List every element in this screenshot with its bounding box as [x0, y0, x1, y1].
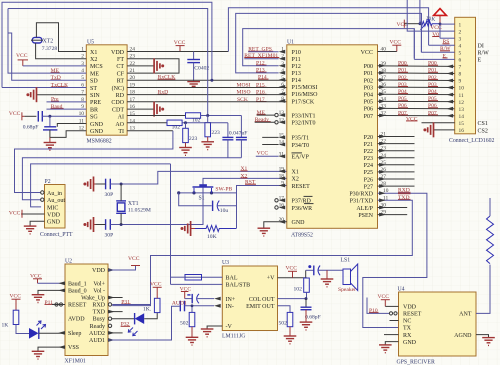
svg-text:RESET: RESET [403, 312, 422, 318]
svg-text:11.0529M: 11.0529M [128, 208, 151, 214]
ground at U2 VSS [38, 347, 65, 351]
svg-text:14: 14 [130, 118, 136, 124]
svg-text:MSM6882: MSM6882 [87, 139, 112, 145]
svg-text:AVDD: AVDD [68, 317, 85, 323]
svg-text:CS2: CS2 [478, 128, 488, 134]
U2 right pin wedges [108, 268, 115, 272]
svg-text:S1: S1 [199, 195, 205, 201]
resistor 502 on EMIT OUT [278, 306, 291, 313]
svg-text:P26: P26 [364, 177, 373, 183]
svg-text:NC: NC [403, 319, 411, 325]
series cap on IN- (AUD1) [179, 301, 181, 312]
wire crystal bottom to pin2 X2 [36, 43, 87, 59]
wire pin2 from top edge [407, 0, 455, 31]
svg-text:30P: 30P [105, 192, 114, 198]
capacitor 68pF below COL OUT [305, 299, 307, 308]
svg-text:Vol+: Vol+ [93, 281, 105, 287]
svg-text:4: 4 [459, 43, 462, 49]
wire pin12 GND to cap bottom [50, 130, 86, 138]
svg-text:P11: P11 [292, 57, 301, 63]
ground below 223 [179, 147, 192, 149]
svg-text:EA/VP: EA/VP [292, 155, 310, 161]
wire RD pin18 row to U1 P16/MISO [127, 94, 287, 96]
svg-text:X2: X2 [241, 173, 248, 179]
wire AO pin14 row [127, 122, 167, 124]
IC U3 LM111JG body [222, 266, 277, 331]
switch S1 symbol SW-PB [193, 188, 195, 193]
svg-text:GND: GND [90, 129, 104, 135]
resistor (BAL loop) [185, 276, 222, 278]
ground below 223 [201, 141, 214, 143]
wire BAL/STB row [171, 283, 223, 285]
VCC power arrow (red) [439, 15, 441, 22]
wire cap to pin10 SG with junction [42, 115, 86, 117]
svg-text:MCS: MCS [90, 64, 103, 70]
svg-text:VCC: VCC [9, 111, 21, 117]
P00-P07 bus wires to LCD [378, 66, 455, 116]
ground below 68pF [300, 321, 313, 323]
svg-text:102: 102 [172, 125, 181, 131]
svg-text:CDO: CDO [111, 100, 124, 106]
inverted-pin circles P33 P32 P37 P36 [275, 113, 278, 116]
switch S1 wire row [179, 192, 237, 194]
resistor 10K + ground (reset pulldown) [181, 221, 191, 236]
svg-text:X2: X2 [292, 177, 299, 183]
svg-text:VDD: VDD [403, 305, 417, 311]
svg-text:C0402: C0402 [194, 65, 209, 71]
wire FT pin23 to CF pin21 loop [127, 59, 179, 73]
svg-text:P00: P00 [364, 64, 373, 70]
svg-text:U5: U5 [87, 40, 94, 46]
svg-text:VCC: VCC [128, 256, 140, 262]
svg-text:Wake_Up: Wake_Up [81, 296, 105, 302]
svg-text:Connect_LCD1602: Connect_LCD1602 [449, 138, 495, 144]
wire loop3 to P2 MIC [31, 164, 171, 207]
svg-text:VCC: VCC [150, 282, 162, 288]
svg-text:P21: P21 [364, 142, 373, 148]
antenna (zigzag wire) [489, 198, 491, 216]
U1 right pin numbers [381, 47, 389, 216]
svg-text:P35/T1: P35/T1 [292, 136, 310, 142]
svg-text:U4: U4 [398, 287, 405, 293]
svg-text:CF: CF [117, 71, 125, 77]
wire TI pin13 row [127, 130, 173, 132]
svg-text:8: 8 [459, 72, 462, 78]
crystal XT1 [117, 203, 125, 211]
svg-text:502: 502 [279, 321, 288, 327]
svg-text:PRE: PRE [90, 100, 101, 106]
svg-text:VCC: VCC [174, 40, 186, 46]
U1 left pin wedges [279, 50, 286, 224]
ground at P2 GND [30, 221, 44, 226]
resistor 223 (below AI junction) [207, 116, 209, 123]
wire loop2 rail to P2 Au_out [22, 158, 241, 200]
svg-text:GND: GND [47, 220, 61, 226]
svg-text:ANT: ANT [459, 312, 472, 318]
svg-text:2: 2 [459, 29, 462, 35]
svg-text:Vol -: Vol - [93, 288, 105, 294]
IC U5 MSM6882 body [86, 45, 127, 135]
U2 VDD wire to VCC [108, 266, 136, 271]
svg-text:6: 6 [459, 58, 462, 64]
ground below 502 [186, 336, 199, 338]
svg-text:PSEN: PSEN [358, 213, 373, 219]
ground below 502 #2 [284, 335, 297, 337]
series cap + to speaker [306, 269, 314, 271]
svg-text:VDD: VDD [47, 213, 61, 219]
svg-text:RST: RST [245, 180, 256, 186]
svg-text:TI: TI [118, 129, 124, 135]
ground left of bottom 30P cap (sideways) [83, 217, 93, 232]
side labels DI R/W E CS1 CS2 [478, 44, 490, 135]
svg-text:ME: ME [90, 71, 99, 77]
svg-text:VCC: VCC [286, 265, 298, 271]
svg-text:P13: P13 [292, 71, 301, 77]
wire VCC to pin3 MCS [23, 65, 87, 67]
ground at pin7 SIN (sideways) [37, 94, 87, 96]
capacitor 30P top [105, 179, 107, 190]
svg-text:IN-: IN- [226, 304, 234, 310]
ALE PSEN stubs [378, 207, 408, 209]
svg-text:Baud_1: Baud_1 [68, 281, 87, 287]
svg-text:P16/MISO: P16/MISO [292, 92, 319, 98]
IC U4 GPS_RECIVER body [399, 292, 477, 356]
svg-text:P32/INT0: P32/INT0 [292, 121, 316, 127]
svg-text:X1: X1 [292, 170, 299, 176]
svg-text:P36/WR: P36/WR [292, 206, 313, 212]
svg-text:U3: U3 [222, 260, 229, 266]
svg-text:P14: P14 [292, 78, 301, 84]
svg-text:9: 9 [459, 79, 462, 85]
svg-text:P17/SCK: P17/SCK [292, 99, 315, 105]
wire loop1 TI to P2 Au_in [15, 131, 173, 193]
wire crystal top to pin1 X1 [36, 23, 86, 52]
svg-text:CT: CT [116, 64, 124, 70]
svg-text:P22: P22 [364, 149, 373, 155]
svg-text:P33/INT1: P33/INT1 [292, 113, 316, 119]
svg-text:GND: GND [403, 340, 417, 346]
shunt capacitor at pin11/12 [44, 126, 56, 128]
potentiometer 10K [419, 21, 439, 26]
svg-text:Sleep: Sleep [68, 331, 81, 337]
wire TxD pin5 [8, 33, 86, 80]
svg-text:SG: SG [90, 115, 98, 121]
svg-text:MIC: MIC [47, 205, 58, 211]
svg-text:VCC: VCC [16, 53, 28, 59]
resistor 502 shunt on IN- [191, 306, 193, 313]
svg-text:Connect_PTT: Connect_PTT [40, 232, 73, 238]
svg-text:RX: RX [403, 333, 412, 339]
svg-text:P05: P05 [364, 100, 373, 106]
svg-text:7.3728: 7.3728 [42, 46, 58, 52]
connector P2 Connect_PTT body [45, 185, 66, 229]
ground left of speaker [326, 270, 328, 279]
svg-text:AUD2: AUD2 [89, 331, 105, 337]
capacitor 10u (on reset loop) [179, 193, 212, 206]
svg-text:E: E [478, 58, 482, 64]
svg-text:P12: P12 [292, 64, 301, 70]
svg-text:SW-PB: SW-PB [215, 187, 232, 193]
svg-text:SIN: SIN [90, 93, 100, 99]
svg-text:P03: P03 [364, 85, 373, 91]
svg-text:0.68pF: 0.68pF [305, 315, 321, 321]
svg-text:P15/MOSI: P15/MOSI [292, 85, 318, 91]
svg-text:P2: P2 [45, 179, 51, 185]
svg-text:P02: P02 [364, 78, 373, 84]
svg-text:Au_in: Au_in [47, 191, 62, 197]
capacitor 0.047uF #1 [227, 123, 229, 138]
svg-text:P01: P01 [364, 71, 373, 77]
svg-text:R/W: R/W [478, 51, 490, 57]
svg-text:Ready: Ready [90, 324, 105, 330]
svg-text:COL OUT: COL OUT [249, 297, 275, 303]
wire loop y8.5 down to AI junction [8, 9, 208, 116]
U1 left pin numbers [279, 47, 285, 223]
svg-text:GND: GND [292, 220, 306, 226]
svg-text:AI: AI [118, 115, 124, 121]
svg-text:RT: RT [117, 79, 125, 85]
svg-text:-V: -V [226, 324, 233, 330]
capacitor 0.68pF series [37, 111, 39, 122]
svg-text:BAL: BAL [226, 275, 238, 281]
svg-text:GPS_RECIVER: GPS_RECIVER [397, 360, 435, 365]
wire crystal bottom row / X2 net [110, 178, 286, 224]
svg-text:VCC: VCC [397, 22, 409, 28]
svg-text:16: 16 [459, 128, 465, 134]
svg-text:CDT: CDT [112, 107, 124, 113]
svg-text:ST: ST [90, 86, 97, 92]
svg-text:RXD: RXD [92, 303, 105, 309]
wire pot to pin1 + VCC arrow junction [439, 23, 440, 25]
svg-text:223: 223 [189, 136, 198, 142]
svg-text:EMIT OUT: EMIT OUT [246, 304, 275, 310]
+V wire + VCC [278, 277, 307, 279]
ground at U3 -V [207, 326, 222, 329]
U2 left pin wedges [58, 281, 65, 285]
U2 right pin glyphs [108, 303, 111, 306]
capacitor-ground at pin22 CT (sideways red) [127, 65, 154, 67]
svg-text:0.68pF: 0.68pF [23, 125, 39, 131]
wire AI pin15 row [127, 115, 185, 117]
svg-text:15: 15 [130, 111, 136, 117]
svg-text:10u: 10u [220, 208, 229, 214]
GND pin20 to ground [264, 222, 287, 228]
svg-text:30P: 30P [105, 232, 114, 238]
P35 P34 stubs [262, 136, 278, 138]
wire pin11 GND to cap top [57, 124, 86, 127]
U5 right pin numbers [130, 46, 136, 131]
wire RT pin20 long row to U1 P14 [127, 79, 287, 81]
svg-text:502: 502 [180, 321, 189, 327]
U5 left pin numbers [79, 46, 85, 131]
svg-text:U2: U2 [65, 259, 72, 265]
connector Connect_LCD1602 body [455, 17, 476, 134]
resistor 102 (R on AI row) [186, 113, 201, 119]
pin circles P2 [41, 191, 44, 194]
COL OUT wire + junction [278, 298, 307, 300]
svg-text:FT: FT [117, 57, 124, 63]
ground below C0402 [187, 81, 200, 83]
svg-text:AGND: AGND [454, 333, 472, 339]
svg-text:0.047uF: 0.047uF [229, 130, 248, 136]
wire junction down to shunt cap [49, 116, 51, 127]
crystal XT2 [32, 37, 42, 43]
resistor 102 (R on AO row) [167, 120, 182, 126]
svg-text:BAL/STB: BAL/STB [226, 283, 251, 289]
wire RST vertical + to U1 RESET [237, 186, 287, 229]
svg-text:223: 223 [211, 130, 220, 136]
svg-text:SD: SD [90, 79, 98, 85]
svg-text:VDD: VDD [111, 50, 125, 56]
svg-text:(NC): (NC) [112, 85, 124, 92]
svg-text:3: 3 [459, 36, 462, 42]
svg-text:RESET: RESET [68, 303, 87, 309]
svg-text:P24: P24 [364, 163, 373, 169]
P20-P27 stubs [378, 135, 415, 188]
svg-text:Speaker: Speaker [338, 287, 356, 293]
svg-text:AUD1: AUD1 [89, 338, 105, 344]
svg-text:ALE/P: ALE/P [356, 206, 373, 212]
svg-text:U1: U1 [287, 40, 294, 46]
svg-text:P32: P32 [121, 322, 130, 328]
svg-text:P34/T0: P34/T0 [292, 143, 310, 149]
svg-text:VCC: VCC [430, 25, 442, 31]
capacitor 0.047uF #2 [240, 116, 242, 138]
svg-text:VCC: VCC [9, 210, 21, 216]
svg-text:P04: P04 [364, 93, 373, 99]
svg-text:LM111JG: LM111JG [222, 334, 245, 340]
svg-text:IN+: IN+ [226, 297, 236, 303]
resistor 1K (pullup for LED D2) [154, 298, 160, 312]
svg-text:RESET: RESET [292, 184, 311, 190]
svg-text:LS1: LS1 [341, 257, 351, 263]
wire VDD pin24 row [127, 51, 228, 53]
capacitor C0402 [193, 52, 195, 60]
wire CDO pin17 row to U1 P17/SCK [127, 101, 287, 103]
svg-text:102: 102 [294, 287, 303, 293]
svg-text:13: 13 [459, 107, 465, 113]
svg-text:X2: X2 [90, 57, 97, 63]
wire A: VDD up over to LCD RS [228, 8, 428, 52]
svg-text:12: 12 [459, 100, 465, 106]
IC U2 XF1M01 body [65, 264, 108, 356]
svg-text:VDD: VDD [92, 268, 106, 274]
svg-text:P10: P10 [292, 50, 301, 56]
svg-text:TX: TX [403, 326, 412, 332]
LED D1 (left) [29, 328, 39, 339]
svg-text:P20: P20 [364, 135, 373, 141]
wire TxCLK pin6 from outer loop [2, 87, 86, 89]
svg-text:VCC: VCC [390, 39, 402, 45]
svg-text:VCC: VCC [361, 50, 373, 56]
ground left of top 30P cap (sideways) [83, 177, 93, 192]
svg-text:Busy: Busy [93, 317, 105, 323]
net labels P00..P07 twice [398, 61, 437, 117]
IC U1 AT89S52 body [287, 45, 378, 229]
U4 GND to ground [385, 342, 398, 345]
wire U2 AUD1 to U3 IN- cap [108, 306, 180, 340]
svg-text:1K: 1K [2, 323, 9, 329]
svg-text:10: 10 [459, 86, 465, 92]
svg-text:AO: AO [115, 122, 124, 128]
svg-text:XF1M01: XF1M01 [65, 359, 86, 365]
wire loop3 vertical (MIC to BAL) [170, 164, 172, 285]
svg-text:10K: 10K [207, 234, 217, 240]
svg-text:RD: RD [116, 93, 125, 99]
svg-text:P27: P27 [364, 184, 373, 190]
svg-text:P07: P07 [364, 114, 373, 120]
svg-text:11: 11 [459, 93, 464, 99]
svg-text:BR: BR [90, 107, 98, 113]
wire ME pin4 from left loop [8, 9, 86, 74]
svg-text:Baud_0: Baud_0 [68, 288, 87, 294]
svg-text:DI: DI [478, 44, 484, 50]
svg-text:XT1: XT1 [128, 201, 139, 207]
svg-text:VCC: VCC [257, 151, 269, 157]
ground below shunt cap [49, 137, 51, 142]
svg-text:1K.: 1K. [143, 307, 152, 313]
svg-text:+V: +V [267, 275, 275, 281]
resistor 102 pullup COL OUT [305, 270, 307, 278]
svg-text:1: 1 [459, 22, 462, 28]
svg-text:XT2: XT2 [43, 38, 54, 44]
svg-text:AT89S52: AT89S52 [291, 233, 313, 239]
svg-text:7: 7 [459, 65, 462, 71]
svg-text:VSS: VSS [68, 345, 79, 351]
svg-text:P30/RXD: P30/RXD [349, 192, 373, 198]
ground sideways at pin16 [434, 129, 455, 131]
wire crystal top row / X1 net [110, 171, 286, 184]
ground at U2 Baud_0 [38, 290, 65, 294]
U4 NC RX stubs [390, 320, 399, 322]
LED D2 (right, cathode left) [134, 313, 136, 324]
resistor 223 (below AO junction) [185, 123, 187, 129]
svg-text:14: 14 [459, 114, 465, 120]
svg-text:P23: P23 [364, 156, 373, 162]
svg-text:CS1: CS1 [478, 121, 488, 127]
svg-text:X1: X1 [90, 50, 97, 56]
svg-text:5: 5 [459, 51, 462, 57]
wire from top edge to pot left [419, 0, 421, 24]
wire NC pin19 row to U1 P15/MOSI [127, 87, 287, 89]
svg-text:15: 15 [459, 121, 465, 127]
svg-text:TXD: TXD [93, 310, 106, 316]
capacitor-ground at pin16 CDT (sideways red) [127, 108, 154, 110]
svg-text:P06: P06 [364, 107, 373, 113]
U4 AGND to ground [476, 335, 489, 338]
capacitor 30P bottom [105, 219, 107, 230]
svg-text:P31/TXD: P31/TXD [350, 199, 374, 205]
svg-text:GND: GND [90, 122, 104, 128]
svg-text:Au_out: Au_out [47, 198, 65, 204]
svg-text:P25: P25 [364, 170, 373, 176]
wire y2: outer loop from TxCLK around top to RT row [2, 2, 212, 87]
